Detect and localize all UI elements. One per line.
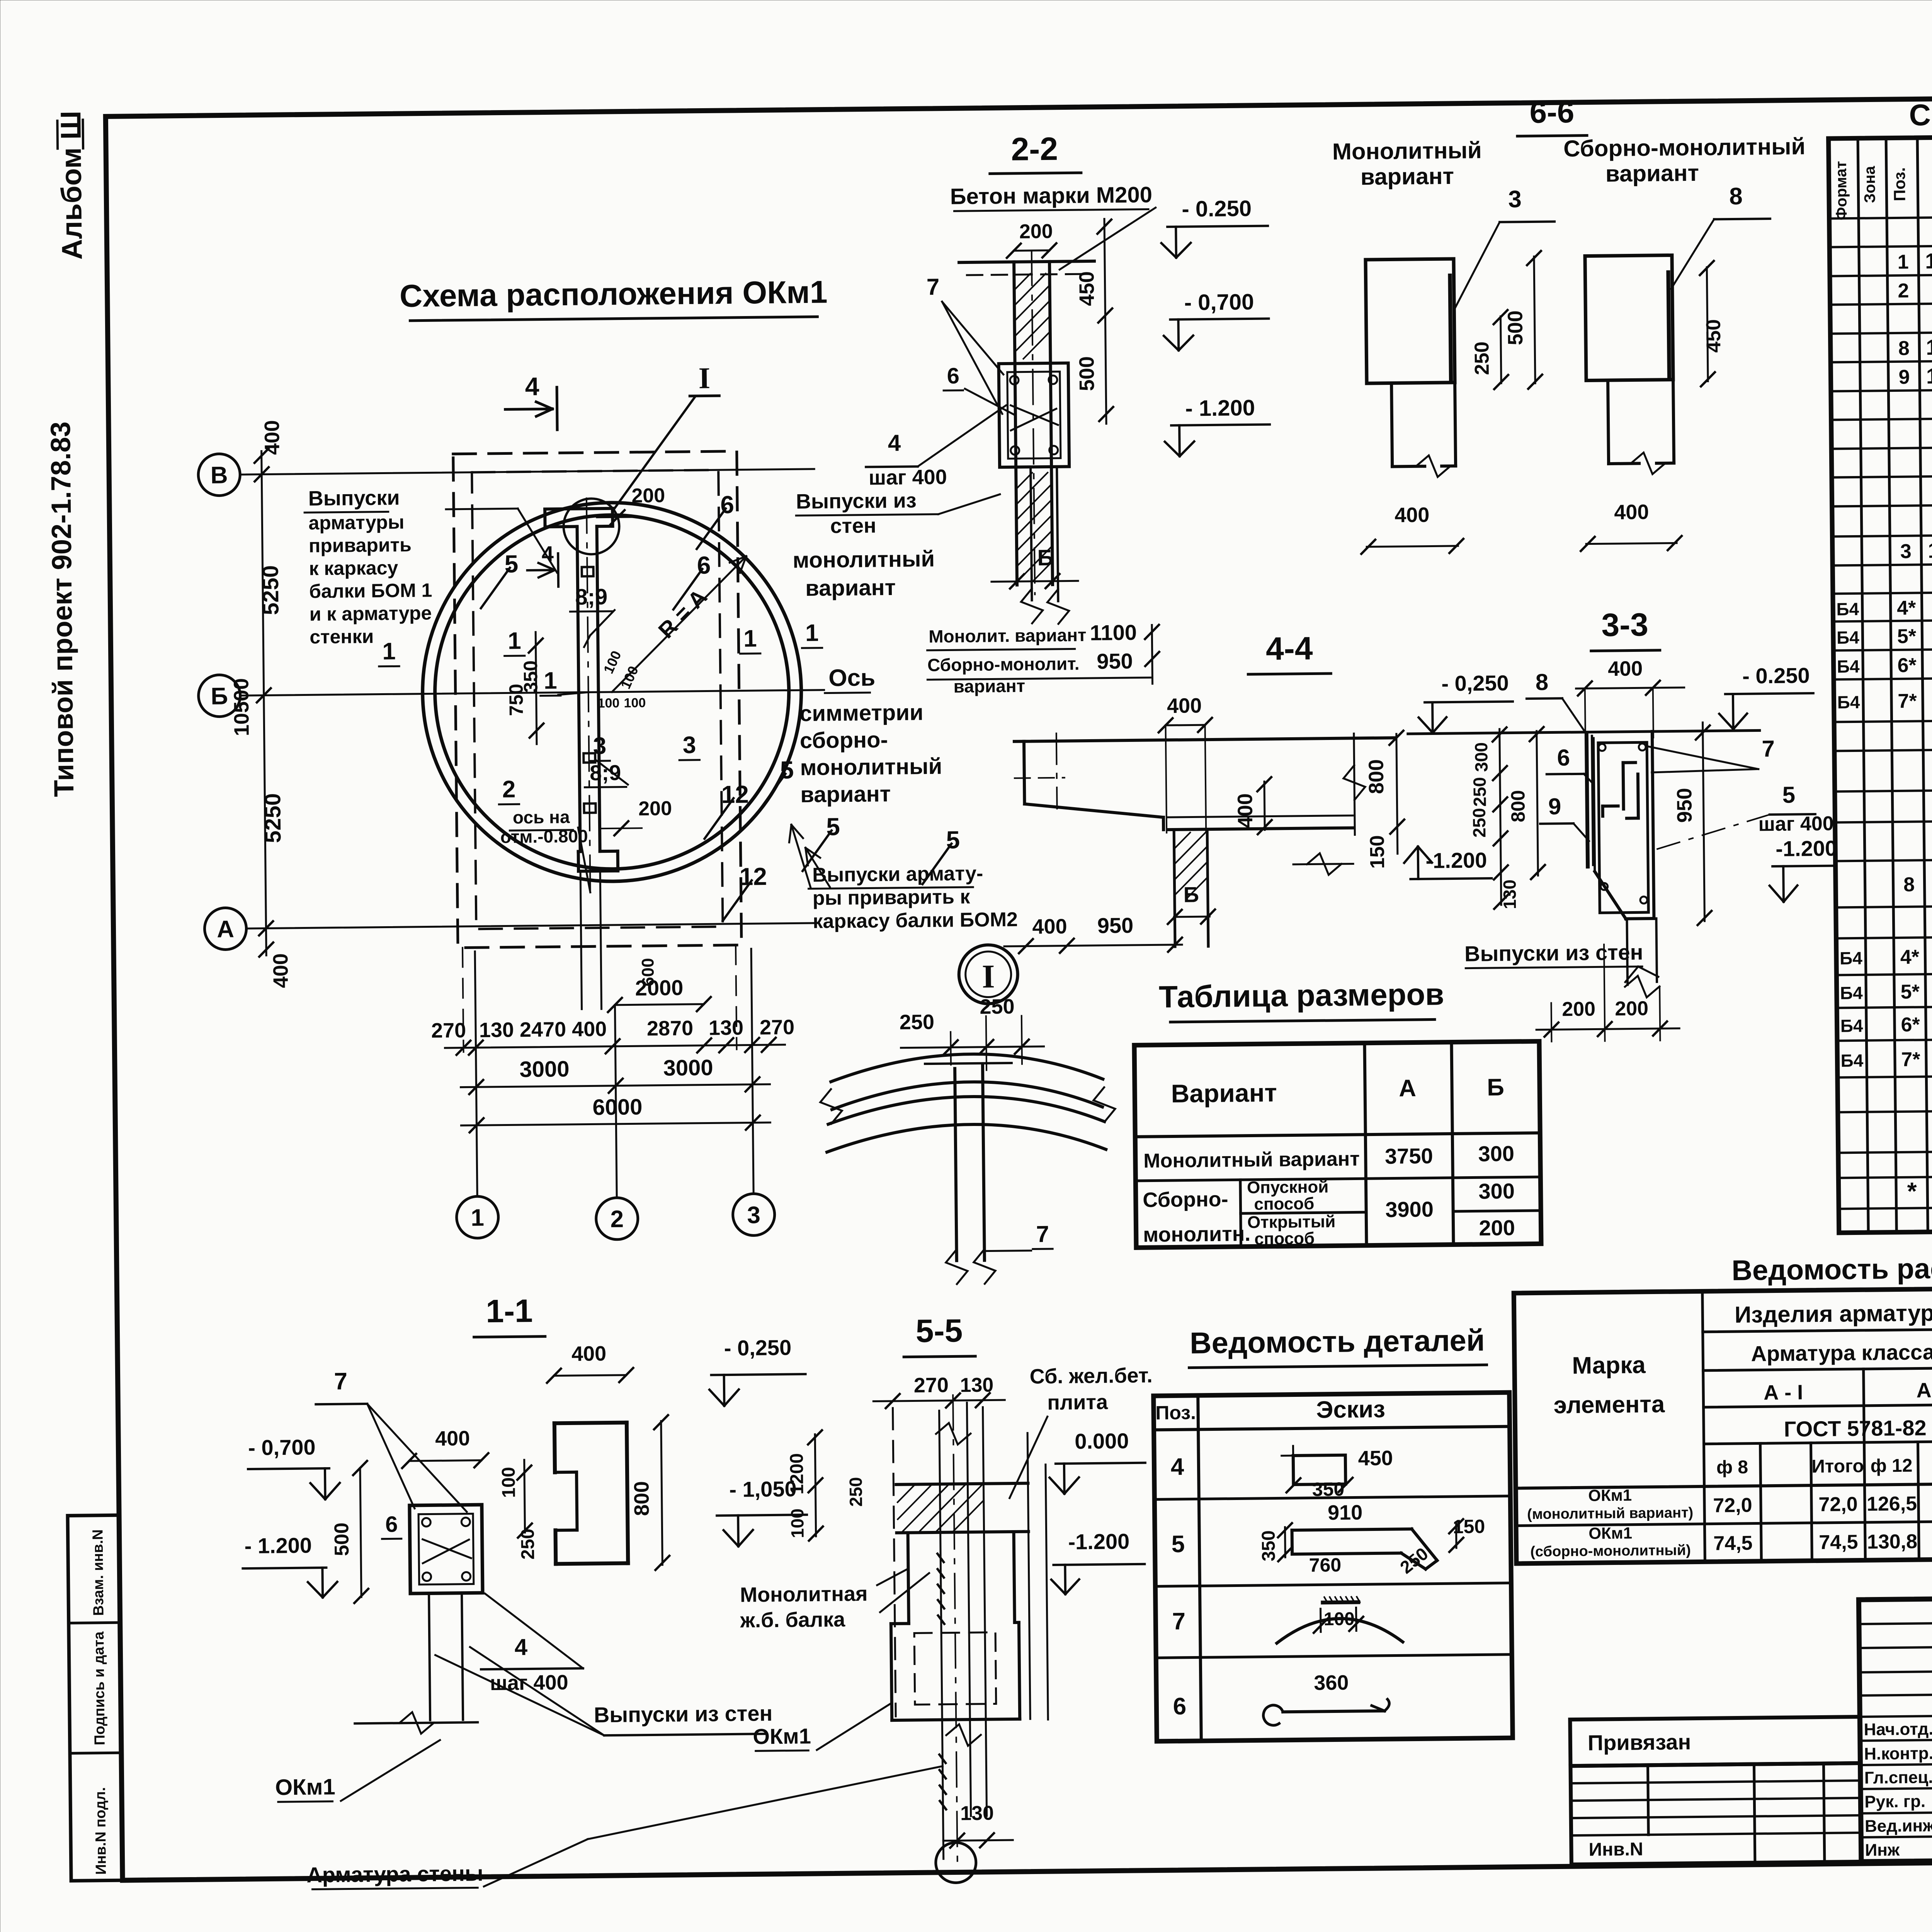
svg-text:- 0,700: - 0,700 [1184, 289, 1254, 315]
svg-text:200: 200 [1615, 997, 1648, 1020]
svg-text:7: 7 [1762, 736, 1775, 762]
svg-text:шаг 400: шаг 400 [490, 1671, 568, 1695]
svg-text:130: 130 [1499, 879, 1520, 909]
svg-text:2-2: 2-2 [1011, 131, 1058, 167]
svg-text:500: 500 [1503, 310, 1527, 345]
svg-text:10500: 10500 [230, 678, 253, 736]
beam web continuation below [580, 871, 582, 1009]
detail I callout circle [563, 498, 619, 554]
size table grid [1134, 1041, 1541, 1248]
svg-text:1: 1 [544, 667, 557, 694]
svg-text:ф 8: ф 8 [1716, 1457, 1748, 1478]
5-5 bottom circle [935, 1842, 976, 1883]
tank wall outer circle [421, 501, 803, 883]
svg-text:Б: Б [1183, 882, 1199, 906]
svg-text:7: 7 [927, 274, 940, 300]
svg-text:5: 5 [1782, 782, 1795, 808]
wall outline dashed outer [453, 451, 742, 948]
svg-text:Монолит. вариант: Монолит. вариант [929, 625, 1087, 646]
svg-text:150: 150 [1453, 1515, 1485, 1537]
svg-text:9: 9 [1548, 793, 1561, 819]
5-5 slab [896, 1483, 1028, 1485]
title block outer [1859, 1592, 1932, 1862]
svg-text:В: В [211, 462, 228, 488]
svg-text:5: 5 [1171, 1531, 1185, 1558]
svg-text:950: 950 [1097, 913, 1134, 938]
tank wall inner circle [433, 513, 791, 871]
beam rebar marks [582, 567, 594, 576]
svg-text:250: 250 [900, 1010, 935, 1034]
svg-text:270: 270 [914, 1374, 949, 1397]
svg-text:способ: способ [1254, 1229, 1315, 1248]
svg-text:2: 2 [502, 776, 516, 803]
svg-text:6-6: 6-6 [1529, 95, 1574, 129]
beam top flange [545, 509, 612, 509]
svg-text:Эскиз: Эскиз [1316, 1396, 1385, 1423]
svg-text:I: I [698, 361, 710, 395]
svg-text:760: 760 [1309, 1554, 1341, 1576]
svg-text:200: 200 [638, 797, 672, 820]
svg-text:250: 250 [845, 1477, 866, 1507]
svg-text:350: 350 [1312, 1478, 1345, 1500]
wall projection lines below [463, 948, 464, 1052]
svg-text:130: 130 [709, 1016, 744, 1040]
svg-text:Рук. гр.: Рук. гр. [1864, 1792, 1925, 1811]
svg-text:Б4: Б4 [1836, 599, 1859, 619]
svg-text:100: 100 [787, 1509, 808, 1538]
5-5 wall face right [1046, 1464, 1048, 1719]
svg-text:3: 3 [593, 733, 606, 759]
svg-text:3: 3 [1900, 540, 1912, 563]
margin stamp strip [68, 1515, 122, 1881]
svg-text:5*: 5* [1900, 981, 1920, 1003]
svg-text:Выпуски из стен: Выпуски из стен [1464, 940, 1643, 966]
6-6 left dim 400 [1367, 546, 1458, 547]
2-2 top slab [959, 261, 1094, 262]
svg-text:Выпуски из: Выпуски из [796, 489, 917, 513]
svg-text:монолитный: монолитный [793, 546, 935, 573]
svg-text:Б4: Б4 [1840, 983, 1863, 1003]
svg-text:270: 270 [431, 1019, 466, 1043]
svg-text:6: 6 [1173, 1693, 1186, 1720]
svg-text:Монолитная: Монолитная [740, 1582, 868, 1607]
svg-text:2870: 2870 [647, 1017, 694, 1040]
svg-text:7*: 7* [1901, 1048, 1920, 1071]
svg-text:к каркасу: к каркасу [309, 557, 398, 579]
axis line A [247, 923, 819, 929]
svg-text:симметрии: симметрии [799, 700, 923, 726]
svg-text:балки БОМ 1: балки БОМ 1 [309, 579, 432, 602]
svg-text:Привязан: Привязан [1588, 1730, 1691, 1755]
6-6 right figure wall [1585, 255, 1673, 380]
svg-text:400: 400 [571, 1342, 607, 1366]
svg-text:3-3: 3-3 [1601, 606, 1648, 643]
bottom dim chain 270 130 2470 400 2870 130 270 [445, 1045, 785, 1048]
axis line 3 [751, 949, 753, 1194]
svg-text:350: 350 [1259, 1530, 1279, 1561]
svg-text:200: 200 [1019, 220, 1053, 243]
svg-text:800: 800 [1364, 759, 1388, 794]
svg-text:7*: 7* [1898, 690, 1917, 712]
svg-text:Выпуски: Выпуски [308, 486, 400, 510]
4-4 right dims 800 150 [1396, 734, 1398, 854]
svg-text:ОКм1: ОКм1 [1588, 1486, 1632, 1505]
svg-text:шаг 400: шаг 400 [869, 466, 947, 490]
svg-text:Вед.инж: Вед.инж [1865, 1816, 1932, 1836]
svg-text:ОКм1: ОКм1 [275, 1774, 335, 1800]
svg-text:Арматура класса: Арматура класса [1751, 1340, 1932, 1366]
svg-text:Б4: Б4 [1837, 627, 1860, 648]
svg-text:- 0,250: - 0,250 [724, 1335, 792, 1360]
svg-text:130: 130 [960, 1802, 994, 1825]
svg-text:5: 5 [826, 813, 840, 840]
6-6 dim 500 [1534, 257, 1535, 383]
5-5 verticals [893, 1408, 896, 1716]
svg-text:Б4: Б4 [1840, 1050, 1864, 1071]
svg-text:Арматура стены: Арматура стены [306, 1861, 483, 1887]
svg-text:4: 4 [888, 430, 901, 456]
svg-text:вариант: вариант [805, 575, 896, 601]
svg-text:200: 200 [631, 485, 665, 507]
svg-text:Нач.отд.: Нач.отд. [1864, 1719, 1932, 1739]
svg-text:Поз.: Поз. [1890, 167, 1909, 201]
svg-text:7: 7 [1036, 1221, 1049, 1247]
svg-text:стенки: стенки [310, 626, 374, 648]
svg-text:74,5: 74,5 [1713, 1532, 1753, 1555]
svg-text:Формат: Формат [1833, 161, 1850, 220]
svg-text:250: 250 [1469, 777, 1490, 807]
tags 6 [696, 509, 726, 549]
svg-text:Инв.N подл.: Инв.N подл. [92, 1787, 109, 1875]
steel table grid [1514, 1282, 1932, 1564]
privyazan box [1570, 1717, 1860, 1766]
specification table grid [1828, 131, 1932, 1233]
5-5 breaks [936, 1423, 971, 1445]
svg-text:6*: 6* [1901, 1014, 1920, 1036]
svg-text:Б: Б [1037, 545, 1053, 570]
svg-text:400: 400 [1233, 793, 1257, 828]
2-2 right dim 450 500 [1104, 219, 1106, 424]
4-4 beam outline [1014, 738, 1395, 741]
svg-text:1200: 1200 [787, 1453, 808, 1495]
5-5 note armatura leader [587, 1766, 943, 1839]
svg-text:8: 8 [1903, 874, 1915, 896]
6-6 left figure wall [1366, 259, 1455, 383]
svg-text:Сборно-: Сборно- [1143, 1188, 1228, 1212]
svg-text:200: 200 [1479, 1216, 1515, 1240]
svg-text:вариант: вариант [1605, 160, 1699, 187]
svg-text:350: 350 [520, 660, 542, 693]
svg-text:ф 12: ф 12 [1870, 1456, 1912, 1476]
svg-text:Б4: Б4 [1840, 1015, 1864, 1036]
svg-text:каркасу балки БОМ2: каркасу балки БОМ2 [813, 908, 1018, 933]
svg-text:А - Ш: А - Ш [1916, 1378, 1932, 1402]
2-2 vypuski bars [1031, 467, 1032, 600]
svg-text:-1.200: -1.200 [1776, 836, 1837, 861]
5-5 note monolithic beam label leader [877, 1569, 908, 1585]
svg-text:1: 1 [1897, 251, 1908, 273]
3-3 bars below [1627, 919, 1628, 985]
svg-text:Б4: Б4 [1837, 656, 1860, 677]
svg-text:400: 400 [1608, 657, 1643, 680]
svg-text:3: 3 [682, 732, 696, 759]
6-6 right dim 400 [1586, 543, 1677, 544]
svg-text:5: 5 [780, 756, 794, 784]
svg-text:8;9: 8;9 [590, 760, 621, 785]
svg-text:способ: способ [1254, 1194, 1314, 1213]
svg-text:Выпуски из стен: Выпуски из стен [594, 1701, 773, 1727]
bottom dim 6000 [461, 1122, 770, 1126]
svg-text:Н.контр.: Н.контр. [1864, 1744, 1932, 1764]
axis line B [240, 469, 814, 474]
svg-text:вариант: вариант [1361, 163, 1454, 190]
4-4 bottom dims 400 950 [1004, 945, 1182, 946]
svg-text:4: 4 [514, 1634, 528, 1660]
svg-text:элемента: элемента [1553, 1391, 1665, 1419]
svg-text:Б: Б [211, 683, 228, 709]
svg-text:130 2470 400: 130 2470 400 [479, 1017, 607, 1042]
svg-text:7: 7 [334, 1368, 347, 1395]
4-4 dim 400 mid [1264, 782, 1265, 830]
3-3 top line [1408, 730, 1760, 734]
parts list grid [1153, 1393, 1513, 1742]
svg-text:(сборно-монолитный): (сборно-монолитный) [1530, 1542, 1691, 1560]
svg-text:126,5: 126,5 [1867, 1493, 1917, 1515]
3-3 rebar hooks [1623, 763, 1624, 809]
1-1 embedded item [410, 1505, 483, 1594]
axis circle B [198, 454, 240, 496]
tags 5 [481, 568, 510, 608]
svg-text:вариант: вариант [800, 781, 891, 807]
5-5 OKm1 body [891, 1622, 909, 1625]
2-2 wall column [1014, 262, 1017, 585]
svg-text:Сборно-монолит.: Сборно-монолит. [927, 653, 1080, 675]
svg-text:8;9: 8;9 [575, 584, 607, 610]
svg-text:910: 910 [1328, 1501, 1363, 1524]
svg-text:450: 450 [1702, 319, 1725, 353]
svg-text:1-1: 1-1 [486, 1293, 533, 1329]
svg-text:3750: 3750 [1385, 1144, 1433, 1168]
svg-text:72,0: 72,0 [1713, 1494, 1752, 1517]
svg-text:400: 400 [1395, 503, 1430, 527]
svg-text:4: 4 [541, 541, 554, 566]
svg-text:400: 400 [260, 420, 284, 455]
svg-text:стен: стен [830, 514, 876, 537]
svg-text:3000: 3000 [663, 1055, 713, 1080]
svg-text:8: 8 [1898, 337, 1910, 360]
svg-text:450: 450 [1358, 1447, 1393, 1470]
svg-text:Вариант: Вариант [1171, 1078, 1277, 1108]
beam bottom flange [578, 850, 580, 853]
svg-text:Инв.N: Инв.N [1588, 1839, 1643, 1860]
svg-text:плита: плита [1047, 1391, 1108, 1415]
svg-text:800: 800 [1507, 790, 1529, 822]
tags 12 [704, 798, 734, 839]
bottom dim 2000 [615, 1004, 704, 1005]
svg-text:6*: 6* [1897, 654, 1917, 677]
svg-text:ОКм1: ОКм1 [1588, 1524, 1632, 1543]
svg-text:А: А [1399, 1075, 1416, 1102]
svg-text:400: 400 [435, 1427, 470, 1450]
svg-text:Схема расположения ОКм1: Схема расположения ОКм1 [400, 274, 828, 314]
svg-text:300: 300 [1471, 742, 1492, 772]
svg-text:Монолитный: Монолитный [1332, 137, 1482, 165]
1-1 bars below [429, 1594, 430, 1720]
svg-text:4: 4 [525, 372, 539, 401]
svg-text:ж.б. балка: ж.б. балка [740, 1608, 845, 1632]
svg-text:3: 3 [1508, 186, 1522, 213]
svg-text:1.400-15. Вып. 1: 1.400-15. Вып. 1 [1925, 247, 1932, 273]
svg-text:1: 1 [382, 638, 396, 665]
svg-text:250: 250 [1469, 808, 1490, 838]
3-3 embedded plate [1587, 734, 1588, 867]
svg-text:5*: 5* [1897, 625, 1917, 648]
svg-text:5-5: 5-5 [915, 1312, 963, 1349]
svg-text:- 0.250: - 0.250 [1742, 663, 1810, 688]
4-4 wall below [1174, 830, 1175, 947]
svg-text:5: 5 [504, 550, 518, 578]
1-1 dim 800 [661, 1421, 663, 1565]
svg-text:Монолитный вариант: Монолитный вариант [1143, 1148, 1360, 1172]
3-3 rebar cage [1598, 742, 1648, 913]
svg-text:2: 2 [610, 1206, 624, 1233]
bottom dim 3000 3000 [461, 1084, 770, 1087]
svg-text:отм.-0.800: отм.-0.800 [500, 826, 588, 847]
axis circle 1 [456, 1196, 498, 1238]
svg-text:8: 8 [1536, 669, 1549, 695]
svg-text:100: 100 [498, 1467, 519, 1498]
svg-text:6000: 6000 [592, 1094, 643, 1120]
svg-text:- 1.200: - 1.200 [244, 1533, 312, 1558]
svg-text:130,8: 130,8 [1867, 1531, 1918, 1553]
svg-text:12: 12 [721, 780, 749, 808]
svg-text:Выпуски армату-: Выпуски армату- [812, 862, 983, 886]
svg-text:950: 950 [1097, 649, 1133, 673]
svg-text:2: 2 [1898, 280, 1909, 302]
svg-text:Инж: Инж [1865, 1840, 1900, 1860]
svg-text:- 0,250: - 0,250 [1441, 671, 1509, 696]
detail I arcs [831, 1053, 1103, 1082]
beam centre line [587, 498, 590, 892]
1-1 wall shape right [554, 1423, 627, 1423]
svg-text:(монолитный вариант): (монолитный вариант) [1527, 1505, 1693, 1522]
svg-text:500: 500 [330, 1522, 353, 1556]
svg-text:600: 600 [638, 958, 658, 986]
svg-text:Подпись и дата: Подпись и дата [91, 1631, 108, 1745]
svg-text:300: 300 [1478, 1141, 1514, 1166]
svg-text:72,0: 72,0 [1818, 1493, 1858, 1516]
svg-text:ОКм1: ОКм1 [753, 1724, 811, 1748]
svg-text:Таблица размеров: Таблица размеров [1159, 977, 1444, 1014]
3-3 dim 950 [1703, 723, 1705, 921]
svg-text:монолитн.: монолитн. [1143, 1222, 1251, 1247]
detail I beam web [955, 1068, 957, 1260]
svg-text:ры приварить к: ры приварить к [813, 886, 971, 910]
svg-text:74,5: 74,5 [1819, 1531, 1858, 1554]
svg-text:1: 1 [743, 625, 757, 652]
svg-text:приварить: приварить [309, 534, 412, 557]
svg-text:1.400-15, Вып. 1: 1.400-15, Вып. 1 [1928, 536, 1932, 562]
svg-text:1: 1 [805, 620, 819, 646]
svg-text:360: 360 [1314, 1671, 1349, 1695]
svg-text:1100: 1100 [1090, 620, 1137, 645]
2-2 embedded item [999, 363, 1070, 467]
svg-text:200: 200 [1562, 998, 1595, 1020]
svg-text:монолитный: монолитный [800, 754, 942, 781]
axis line 2 [615, 1005, 617, 1198]
svg-text:500: 500 [1075, 356, 1099, 391]
svg-text:ГОСТ 5781-82: ГОСТ 5781-82 [1784, 1415, 1926, 1441]
axis circle A [204, 908, 247, 950]
svg-text:3000: 3000 [519, 1056, 570, 1082]
svg-text:Изделия арматурные: Изделия арматурные [1735, 1299, 1932, 1328]
svg-text:400: 400 [1167, 694, 1202, 718]
svg-text:300: 300 [1478, 1179, 1515, 1204]
svg-text:4-4: 4-4 [1266, 630, 1313, 667]
svg-text:7: 7 [1172, 1608, 1185, 1635]
1-1 dim 500 [360, 1468, 361, 1597]
svg-text:-1.200: -1.200 [1425, 848, 1487, 873]
svg-text:А - I: А - I [1764, 1381, 1803, 1404]
svg-text:Ось: Ось [828, 664, 875, 691]
svg-text:арматуры: арматуры [308, 511, 404, 534]
svg-text:5250: 5250 [258, 565, 283, 616]
detail I circle mark [959, 945, 1018, 1004]
wall outline dashed inner [472, 470, 723, 929]
svg-text:Бетон марки М200: Бетон марки М200 [950, 182, 1153, 209]
4-4 axis dashed left [1056, 733, 1057, 809]
svg-text:6: 6 [1557, 745, 1570, 770]
svg-text:-1.200: -1.200 [1068, 1529, 1129, 1554]
3-3 left dims 300 250 250 130 [1500, 729, 1501, 905]
svg-text:Б4: Б4 [1837, 692, 1861, 713]
5-5 beam body [908, 1533, 909, 1624]
dim 750 350 [536, 632, 537, 744]
3-3 dim 800 [1537, 731, 1538, 876]
detail I break ends [820, 1089, 842, 1124]
svg-text:6: 6 [697, 551, 711, 579]
svg-text:5250: 5250 [260, 793, 286, 843]
svg-text:1: 1 [508, 628, 521, 654]
svg-text:250: 250 [1471, 342, 1493, 375]
svg-text:- 1.200: - 1.200 [1185, 395, 1255, 421]
svg-text:100: 100 [624, 696, 646, 711]
svg-text:I: I [982, 957, 995, 995]
left dim chain 400-5250-5250-400 [262, 451, 267, 956]
svg-text:Ведомость расхода стали на о: Ведомость расхода стали на один элемент,… [1731, 1248, 1932, 1286]
svg-text:Гл.спец.: Гл.спец. [1864, 1768, 1932, 1787]
svg-text:шаг 400: шаг 400 [1758, 813, 1834, 836]
beam OKm1 web in plan [577, 527, 580, 852]
svg-text:6: 6 [947, 363, 959, 388]
svg-text:Итого: Итого [1811, 1456, 1864, 1477]
svg-text:270: 270 [760, 1015, 795, 1039]
svg-text:Сборно-монолитный: Сборно-монолитный [1563, 133, 1806, 162]
svg-text:сборно-: сборно- [800, 727, 888, 753]
svg-text:9: 9 [1898, 366, 1910, 388]
svg-text:3900: 3900 [1385, 1197, 1434, 1222]
svg-text:3: 3 [747, 1202, 760, 1228]
svg-text:- 0.250: - 0.250 [1182, 196, 1252, 222]
6-6 left dim 250 [1500, 316, 1501, 383]
svg-text:Марка: Марка [1572, 1352, 1646, 1379]
axis circle 3 [733, 1194, 775, 1236]
svg-text:150: 150 [1366, 835, 1389, 869]
svg-text:5: 5 [946, 826, 960, 854]
svg-text:Взам. инв.N: Взам. инв.N [90, 1529, 107, 1616]
5-5 rebar bars [939, 1411, 944, 1859]
svg-text:12: 12 [739, 862, 767, 891]
